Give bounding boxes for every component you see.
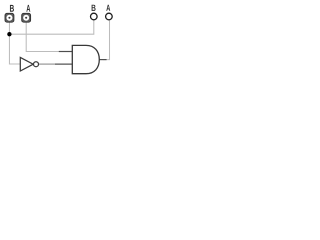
node junction dot <box>7 32 11 36</box>
wire AND output up to right A circle <box>103 21 110 60</box>
AND gate U2 input stub lower / NOT output wire <box>39 63 55 65</box>
AND gate U2 output stub <box>99 59 107 61</box>
label A (left square) <box>26 5 30 12</box>
AND gate U2 body <box>72 45 99 73</box>
wire B square down to NOT input corner <box>9 22 20 64</box>
NOT gate U1 bubble <box>34 62 39 67</box>
NOT gate U1 triangle <box>20 57 33 71</box>
wire A square down then right to AND upper input <box>26 22 59 51</box>
label A (right circle) <box>106 5 110 11</box>
input terminal A square <box>22 13 31 22</box>
wire junction horizontal B net to right circle <box>9 21 93 35</box>
label B (right circle) <box>92 5 96 11</box>
output terminal B circle <box>91 13 98 20</box>
input terminal B square <box>5 13 14 22</box>
output terminal A circle <box>106 13 113 20</box>
AND gate U2 input stub upper <box>59 51 73 53</box>
label B (left square) <box>10 5 14 12</box>
